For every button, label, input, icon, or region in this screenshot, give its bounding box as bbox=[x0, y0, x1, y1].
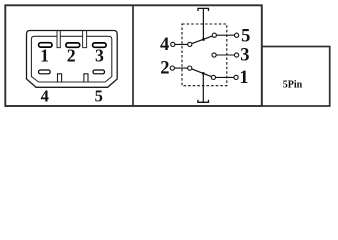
pin slot 3 bbox=[93, 43, 107, 47]
wire pin2 to pivot B bbox=[172, 67, 189, 69]
pin slot 1 bbox=[39, 43, 52, 47]
terminal circle pin 1 bbox=[234, 75, 238, 79]
svg-text:3: 3 bbox=[240, 45, 249, 65]
contact circle 1 bbox=[211, 75, 215, 79]
switch armature B (pivot 2 to contact 1) bbox=[190, 68, 211, 76]
contact circle 5 bbox=[212, 33, 216, 37]
junction on armature A bbox=[202, 38, 205, 41]
top terminal symbol bbox=[198, 8, 209, 11]
bottom terminal symbol bbox=[198, 100, 209, 103]
pivot circle A bbox=[188, 42, 192, 46]
svg-text:2: 2 bbox=[160, 59, 169, 79]
pivot circle B bbox=[188, 66, 192, 70]
wire contact3 to pin3 bbox=[214, 54, 237, 56]
key notch between slot2 and slot3 bbox=[83, 31, 87, 48]
pin slot 4 (lower left) bbox=[39, 70, 51, 74]
bottom tab left bbox=[58, 74, 62, 82]
wire contact1 to pin1 bbox=[213, 76, 236, 78]
contact circle 3 bbox=[212, 53, 216, 57]
terminal circle pin 4 bbox=[171, 42, 175, 46]
wire: bottom stem to armature B bbox=[202, 73, 204, 102]
terminal circle pin 3 bbox=[235, 53, 239, 57]
cell divider bbox=[132, 5, 134, 106]
junction on armature B bbox=[202, 72, 205, 75]
key notch between slot1 and slot2 bbox=[57, 31, 60, 48]
svg-text:1: 1 bbox=[40, 46, 49, 66]
connector housing inner outline bbox=[31, 36, 111, 82]
svg-text:5Pin: 5Pin bbox=[283, 80, 303, 91]
terminal circle pin 2 bbox=[170, 66, 174, 70]
wire contact5 to pin5 bbox=[214, 34, 236, 36]
svg-text:5: 5 bbox=[95, 87, 103, 106]
connector housing outer outline bbox=[27, 31, 118, 88]
relay dashed box bbox=[182, 24, 227, 86]
pin slot 2 bbox=[66, 43, 80, 47]
wire: top stem to armature A bbox=[202, 8, 204, 39]
outer frame (left+middle cells) bbox=[5, 5, 262, 106]
bottom tab right bbox=[84, 74, 88, 82]
wire pin4 to pivot A bbox=[173, 43, 190, 45]
5Pin box bbox=[262, 47, 330, 107]
svg-text:3: 3 bbox=[95, 46, 104, 66]
svg-text:1: 1 bbox=[239, 68, 248, 88]
svg-text:2: 2 bbox=[67, 46, 76, 66]
svg-text:4: 4 bbox=[160, 35, 169, 55]
svg-text:4: 4 bbox=[41, 87, 49, 106]
switch armature A (pivot 4 to contact 5) bbox=[191, 36, 213, 44]
svg-text:5: 5 bbox=[241, 26, 250, 46]
pin slot 5 (lower right) bbox=[93, 70, 105, 74]
terminal circle pin 5 bbox=[235, 33, 239, 37]
